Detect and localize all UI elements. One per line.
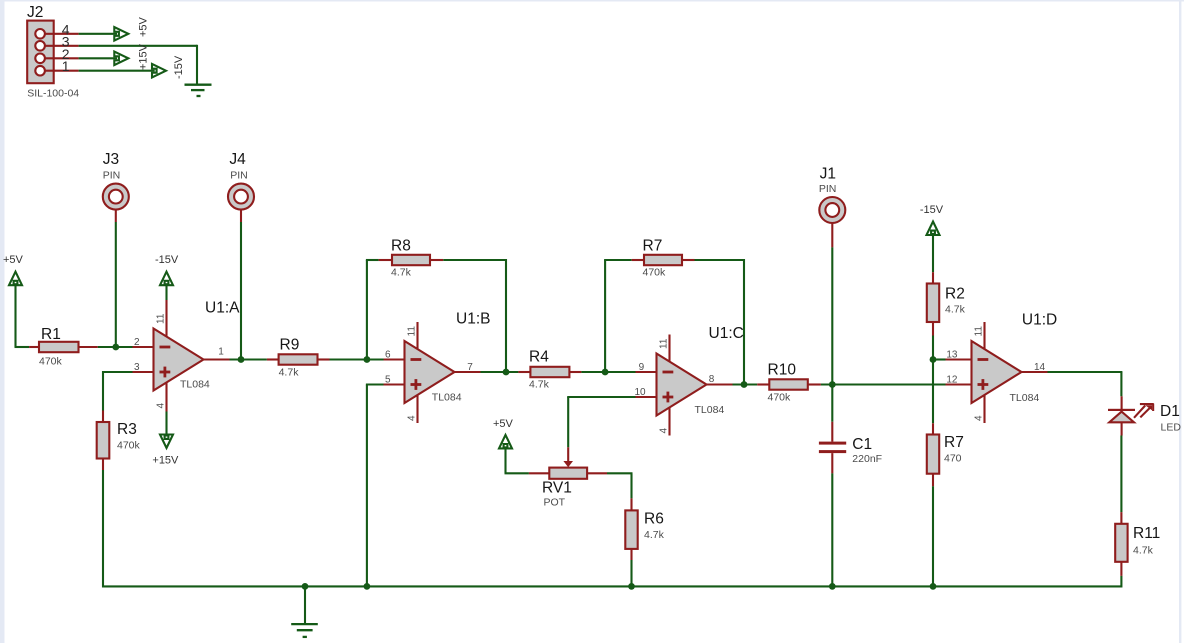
connector J2 pin circle 2 xyxy=(35,54,45,64)
wire node C up to R8 xyxy=(366,260,379,361)
svg-text:J1: J1 xyxy=(820,166,836,183)
wire J1 to node E xyxy=(831,247,833,384)
svg-text:1: 1 xyxy=(62,58,70,74)
wire J2 pin 3 to ground xyxy=(79,45,197,84)
pin number 1 of J2 xyxy=(62,58,70,74)
potentiometer RV1 wiper xyxy=(563,447,573,467)
pin number 4 of U1:C xyxy=(659,428,670,434)
connector J2 pin 2 lead xyxy=(45,57,79,59)
svg-text:R11: R11 xyxy=(1133,525,1160,542)
connector J2 label xyxy=(27,4,43,21)
ground symbol at J2 xyxy=(185,85,212,96)
pin J1 symbol xyxy=(819,197,845,223)
op-amp U1:B xyxy=(405,341,455,403)
pin number 13 of U1:D xyxy=(946,350,958,361)
wire R8 to U1:B output node xyxy=(443,259,507,372)
U1:C pin 9 lead xyxy=(636,371,657,373)
svg-text:4: 4 xyxy=(156,403,167,409)
svg-text:R8: R8 xyxy=(391,238,411,255)
svg-text:U1:B: U1:B xyxy=(456,310,490,327)
pin number 11 of U1:C xyxy=(659,338,670,349)
wire R1 to U1:A pin 2 xyxy=(98,346,133,348)
LED D1 labels xyxy=(1160,403,1181,434)
rail junction at R7b xyxy=(930,583,937,590)
node C junction R8/pin6 xyxy=(364,356,371,363)
svg-text:C1: C1 xyxy=(852,436,872,453)
svg-text:U1:D: U1:D xyxy=(1022,311,1057,328)
op-amp U1:A part label TL084 xyxy=(180,379,210,391)
resistor R8 xyxy=(379,255,444,265)
resistor R11 labels xyxy=(1133,525,1160,557)
resistor R6 labels xyxy=(644,511,665,542)
node H junction R2/R7b/pin13 xyxy=(930,356,937,363)
pin number 3 of J2 xyxy=(62,33,70,49)
svg-text:4.7k: 4.7k xyxy=(391,267,412,279)
resistor R10 xyxy=(757,379,821,389)
connector J2 pin 4 lead xyxy=(45,33,79,35)
U1:A pin 3 lead xyxy=(133,371,154,373)
svg-text:+5V: +5V xyxy=(493,418,514,430)
pin number 1 of U1:A xyxy=(218,347,224,358)
node A junction J3/R1/pin2 xyxy=(112,344,119,351)
svg-text:R4: R4 xyxy=(529,349,549,366)
svg-text:PIN: PIN xyxy=(230,170,248,182)
op-amp U1:C xyxy=(657,354,707,416)
U1:C pin 11 stub xyxy=(668,335,670,362)
svg-text:-15V: -15V xyxy=(920,204,944,216)
capacitor C1 labels xyxy=(852,436,882,465)
rail junction at C1 xyxy=(829,583,836,590)
U1:D pin 4 stub xyxy=(983,395,985,423)
wire U1:A output to R9 xyxy=(230,358,267,360)
resistor R7b xyxy=(927,423,939,486)
LED D1 xyxy=(1108,396,1154,435)
U1:D pin 12 lead xyxy=(946,383,972,385)
U1:B pin 11 stub xyxy=(416,322,418,349)
wire J2 pin 2 to +15V arrow xyxy=(79,57,117,59)
svg-text:J4: J4 xyxy=(229,151,246,168)
U1:C pin 4 stub xyxy=(668,407,670,435)
resistor R3 labels xyxy=(117,421,141,452)
wire U1:B pin 5 to ground rail xyxy=(366,385,384,588)
svg-text:+5V: +5V xyxy=(3,254,24,266)
value label SIL-100-04 of J2 xyxy=(27,88,79,100)
U1:B pin 5 lead xyxy=(384,383,405,385)
power symbol +5V at RV1 xyxy=(493,418,514,448)
pin number 4 of U1:D xyxy=(974,415,985,421)
pin number 2 of J2 xyxy=(62,46,70,62)
connector J2 pin 3 lead xyxy=(45,45,79,47)
svg-text:TL084: TL084 xyxy=(1010,392,1040,404)
wire node E down to C1 xyxy=(831,386,833,422)
resistor R7 labels xyxy=(643,238,667,279)
node D junction R8/R4 xyxy=(503,369,510,376)
svg-text:D1: D1 xyxy=(1160,403,1180,420)
wire R7 to U1:C output node xyxy=(695,259,746,385)
connector J2 pin circle 4 xyxy=(35,29,45,39)
svg-text:PIN: PIN xyxy=(819,183,837,195)
pin number 6 of U1:B xyxy=(385,350,391,361)
node F junction R7/pin9 xyxy=(602,369,609,376)
wire U1:D output to D1 xyxy=(1048,372,1123,396)
svg-text:-15V: -15V xyxy=(173,55,185,79)
wire R11 to ground rail xyxy=(1120,576,1122,588)
U1:A output pin 1 lead xyxy=(204,358,230,360)
svg-text:+15V: +15V xyxy=(152,455,179,467)
pin number 11 of U1:A xyxy=(156,313,167,324)
U1:D pin 11 stub xyxy=(983,322,985,349)
pin J3 lead xyxy=(115,210,117,222)
resistor R7 xyxy=(632,255,695,265)
wire node H to U1:D pin 13 xyxy=(933,358,946,360)
ground symbol bottom xyxy=(291,624,318,637)
op-amp U1:A label xyxy=(205,300,240,317)
svg-text:+15V: +15V xyxy=(138,43,150,70)
svg-text:LED: LED xyxy=(1161,422,1182,434)
wire J2 pin 4 to +5V arrow xyxy=(79,33,117,35)
svg-text:TL084: TL084 xyxy=(695,404,725,416)
pin number 10 of U1:C xyxy=(634,387,646,398)
svg-text:4.7k: 4.7k xyxy=(945,304,966,316)
potentiometer RV1 xyxy=(529,468,607,479)
op-amp U1:B label xyxy=(456,310,490,327)
wire J2 pin 1 to -15V arrow xyxy=(79,70,155,72)
resistor R6 xyxy=(625,498,637,560)
wire U1:A pin 4 to +15V arrow xyxy=(165,412,167,437)
power symbol +5V at J2 pin 4 xyxy=(114,16,149,40)
power symbol -15V at J2 pin 1 xyxy=(152,55,185,79)
node B junction J4/output xyxy=(238,356,245,363)
resistor R7b labels xyxy=(944,434,964,465)
svg-text:SIL-100-04: SIL-100-04 xyxy=(27,88,79,100)
svg-text:RV1: RV1 xyxy=(542,480,572,497)
pin number 4 of J2 xyxy=(62,21,70,37)
svg-text:4: 4 xyxy=(407,415,418,421)
U1:B output pin 7 lead xyxy=(455,371,481,373)
svg-text:R9: R9 xyxy=(280,337,300,354)
wire -15V arrow to R2 xyxy=(932,233,934,272)
svg-text:11: 11 xyxy=(659,338,670,349)
svg-text:13: 13 xyxy=(946,350,958,361)
pin number 12 of U1:D xyxy=(946,375,958,386)
potentiometer RV1 labels xyxy=(542,480,572,509)
svg-text:11: 11 xyxy=(407,326,418,337)
node E junction J1/C1/R10 xyxy=(829,381,836,388)
resistor R8 labels xyxy=(391,238,412,279)
op-amp U1:D xyxy=(972,341,1022,403)
rail junction at ground stem xyxy=(302,583,309,590)
wire -15V arrow to U1:A pin 11 xyxy=(165,283,167,300)
U1:A pin 11 lead xyxy=(165,300,167,337)
wire +5V arrow to RV1 xyxy=(505,446,529,473)
pin J4 symbol xyxy=(228,184,254,210)
wire D1 to R11 xyxy=(1120,436,1122,513)
connector J2 body xyxy=(27,21,54,84)
resistor R1 xyxy=(29,342,98,352)
resistor R2 labels xyxy=(945,286,966,316)
svg-text:2: 2 xyxy=(134,337,140,348)
svg-text:6: 6 xyxy=(385,350,391,361)
wire rail to ground symbol xyxy=(304,586,306,623)
node G junction output/R7/R10 xyxy=(741,381,748,388)
svg-text:POT: POT xyxy=(544,497,566,509)
U1:C pin 10 lead xyxy=(636,396,657,398)
ground rail wire xyxy=(103,585,1121,587)
resistor R3 xyxy=(97,411,110,471)
svg-text:470k: 470k xyxy=(768,392,792,404)
svg-text:PIN: PIN xyxy=(103,170,121,182)
pin number 4 of U1:A xyxy=(156,403,167,409)
pin number 11 of U1:D xyxy=(974,326,985,337)
svg-text:R7: R7 xyxy=(944,434,964,451)
rail junction at pin5 drop xyxy=(364,583,371,590)
pin J1 label xyxy=(819,166,837,195)
svg-text:3: 3 xyxy=(134,362,140,373)
pin number 11 of U1:B xyxy=(407,326,418,337)
wire node F up to R7 xyxy=(604,260,632,373)
wire +5V arrow to R1 xyxy=(15,283,30,347)
wire R6 to ground rail xyxy=(630,560,632,586)
op-amp U1:C part label TL084 xyxy=(695,404,725,416)
svg-text:TL084: TL084 xyxy=(432,392,462,404)
wire R2 to node H and on to R7b xyxy=(932,336,934,424)
svg-text:U1:A: U1:A xyxy=(205,300,240,317)
wire U1:A pin 3 to R3 xyxy=(103,371,133,411)
svg-text:1: 1 xyxy=(218,347,224,358)
svg-text:4: 4 xyxy=(974,415,985,421)
pin J1 lead xyxy=(831,223,833,247)
svg-text:220nF: 220nF xyxy=(852,453,882,465)
svg-text:R2: R2 xyxy=(945,286,965,303)
svg-text:470: 470 xyxy=(944,453,962,465)
wire R9 to U1:B pin 6 xyxy=(330,358,384,360)
svg-text:4.7k: 4.7k xyxy=(644,529,665,541)
pin J3 label xyxy=(103,151,121,182)
capacitor C1 xyxy=(819,422,846,474)
wire R4 to U1:C pin 9 xyxy=(581,371,635,373)
resistor R9 labels xyxy=(279,337,300,379)
U1:A pin 4 lead xyxy=(165,382,167,411)
wire U1:C output to R10 xyxy=(733,383,758,385)
op-amp U1:D part label TL084 xyxy=(1010,392,1040,404)
pin number 7 of U1:B xyxy=(467,362,473,373)
U1:D pin 13 lead xyxy=(946,358,972,360)
wire C1 to ground rail xyxy=(831,473,833,586)
svg-text:+5V: +5V xyxy=(138,16,150,37)
resistor R9 xyxy=(267,354,330,364)
svg-text:J3: J3 xyxy=(103,151,119,168)
svg-text:R7: R7 xyxy=(643,238,663,255)
resistor R11 xyxy=(1115,512,1127,576)
svg-text:-15V: -15V xyxy=(155,254,179,266)
rail junction at R6 xyxy=(628,583,635,590)
resistor R4 xyxy=(518,367,581,377)
svg-text:8: 8 xyxy=(709,374,715,385)
svg-text:470k: 470k xyxy=(643,267,667,279)
pin number 5 of U1:B xyxy=(385,375,391,386)
pin number 2 of U1:A xyxy=(134,337,140,348)
wire R7b to ground rail xyxy=(932,486,934,586)
svg-text:R3: R3 xyxy=(117,421,137,438)
resistor R1 labels xyxy=(39,326,63,368)
wire R3 to ground rail xyxy=(102,470,104,588)
svg-text:4: 4 xyxy=(659,428,670,434)
U1:B pin 6 lead xyxy=(384,358,405,360)
pin J4 lead xyxy=(240,210,242,222)
U1:B pin 4 stub xyxy=(416,395,418,423)
wire J4 to U1:A output node xyxy=(240,222,242,360)
power symbol +15V at U1:A xyxy=(152,435,179,467)
svg-text:12: 12 xyxy=(946,375,958,386)
svg-text:4.7k: 4.7k xyxy=(529,379,550,391)
svg-text:4.7k: 4.7k xyxy=(279,367,300,379)
resistor R4 labels xyxy=(529,349,550,391)
svg-text:4.7k: 4.7k xyxy=(1133,545,1154,557)
wire U1:B output to R4 xyxy=(481,371,519,373)
U1:C output pin 8 lead xyxy=(707,383,733,385)
wire R10 to U1:D pin 12 xyxy=(821,383,946,385)
pin number 14 of U1:D xyxy=(1034,362,1046,373)
U1:D output pin 14 lead xyxy=(1022,371,1048,373)
resistor R10 labels xyxy=(768,362,797,404)
pin number 3 of U1:A xyxy=(134,362,140,373)
wire J3 to node A xyxy=(115,222,117,347)
svg-text:R10: R10 xyxy=(768,362,797,379)
connector J2 pin circle 3 xyxy=(35,41,45,51)
U1:A pin 2 lead xyxy=(133,346,154,348)
connector J2 pin 1 lead xyxy=(45,70,79,72)
svg-text:J2: J2 xyxy=(27,4,43,21)
svg-text:470k: 470k xyxy=(39,356,63,368)
svg-text:11: 11 xyxy=(156,313,167,324)
svg-text:R6: R6 xyxy=(644,511,664,528)
wire U1:C pin 10 to RV1 wiper xyxy=(567,397,635,447)
power symbol +5V left xyxy=(3,254,24,285)
pin J3 symbol xyxy=(103,184,129,210)
power symbol -15V at U1:A xyxy=(155,254,179,285)
svg-text:11: 11 xyxy=(974,326,985,337)
power symbol -15V at R2 xyxy=(920,204,944,235)
svg-text:470k: 470k xyxy=(117,440,141,452)
power symbol +15V at J2 pin 2 xyxy=(114,43,149,70)
op-amp U1:B part label TL084 xyxy=(432,392,462,404)
connector J2 pin circle 1 xyxy=(35,66,45,76)
op-amp U1:C label xyxy=(709,325,744,342)
pin number 8 of U1:C xyxy=(709,374,715,385)
resistor R2 xyxy=(927,272,939,335)
pin number 4 of U1:B xyxy=(407,415,418,421)
pin J4 label xyxy=(229,151,247,182)
svg-text:TL084: TL084 xyxy=(180,379,210,391)
svg-text:9: 9 xyxy=(639,362,645,373)
pin number 9 of U1:C xyxy=(639,362,645,373)
op-amp U1:A xyxy=(154,329,204,391)
op-amp U1:D label xyxy=(1022,311,1057,328)
svg-text:U1:C: U1:C xyxy=(709,325,744,342)
svg-text:R1: R1 xyxy=(41,326,61,343)
wire RV1 to R6 xyxy=(607,473,633,498)
